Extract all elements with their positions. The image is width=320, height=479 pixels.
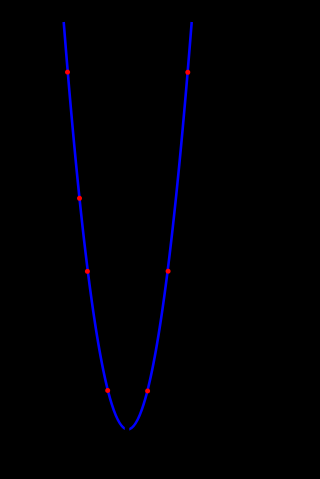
point (3,9) xyxy=(185,70,190,75)
point (2,4) xyxy=(166,269,171,274)
point (1,1) xyxy=(145,389,150,394)
point (-2.4,5.76) xyxy=(77,196,82,201)
point (-1,1) xyxy=(105,388,110,393)
parabola curve y=x^2 xyxy=(64,22,192,430)
point (-3,9) xyxy=(65,70,70,75)
gap at vertex xyxy=(125,426,130,436)
point (-2,4) xyxy=(85,269,90,274)
